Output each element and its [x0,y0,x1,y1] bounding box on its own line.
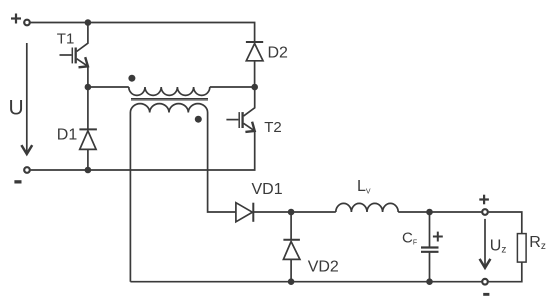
resistor RZ [517,234,526,263]
transistor T2 [226,87,254,132]
wire RZ to output - [489,262,522,282]
node - terminal input [24,167,30,173]
Uz arrow [480,219,491,268]
diode VD2 [283,212,300,282]
svg-text:VD1: VD1 [252,181,283,198]
wire primary to node B [210,86,255,88]
svg-text:D1: D1 [57,126,78,143]
plus sign output [479,195,489,205]
svg-text:LV: LV [357,178,371,196]
svg-text:T2: T2 [264,119,282,136]
node + terminal output [482,209,488,215]
node + terminal input [24,20,30,26]
inductor Lv [336,203,398,212]
node VD1 cathode [288,209,295,216]
plus sign input [11,14,21,24]
svg-text:T1: T1 [57,30,75,47]
diode D1 [79,87,97,170]
minus sign output [483,293,489,296]
minus sign input [14,180,21,183]
node junction top rail [85,19,92,26]
wire bottom input rail [31,131,255,170]
wire top rail [31,23,255,43]
diode VD1 [236,203,336,222]
diode D2 [246,42,263,87]
node CF bottom [426,278,433,285]
transformer core [131,99,208,100]
wire output + to RZ [489,212,522,234]
node A primary left [85,84,92,91]
svg-text:D2: D2 [268,45,289,62]
transistor T1 [60,23,88,88]
capacitor CF [421,212,439,282]
U source arrow [21,43,32,154]
node - terminal output [482,279,488,285]
primary polarity dot [128,75,135,82]
svg-text:VD2: VD2 [308,258,339,275]
svg-text:U: U [9,97,24,120]
node CF top [426,209,433,216]
wire node A to primary [88,86,129,88]
svg-text:CF: CF [402,230,417,247]
transformer secondary winding [130,104,236,282]
node VD2 bottom [288,278,295,285]
wire bottom output rail [130,281,481,283]
plus sign capacitor [433,232,443,242]
svg-text:Uz: Uz [490,238,507,256]
secondary polarity dot [195,116,202,123]
transformer primary winding [129,87,210,95]
wire Lv to output [398,211,481,213]
svg-text:Rz: Rz [529,234,546,252]
node B primary right [251,84,258,91]
node D1 bottom rail [85,167,92,174]
